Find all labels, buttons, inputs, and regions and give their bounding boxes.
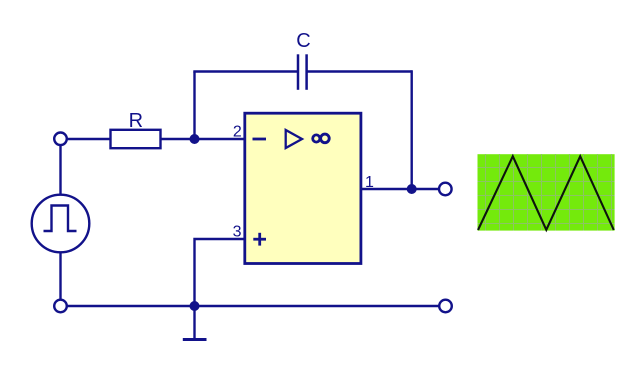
scope triangle waveform [478,156,614,230]
svg-text:C: C [296,30,310,52]
wire feedback top left to capacitor [193,70,298,72]
wire bottom rail [66,305,439,307]
bottom left terminal [54,300,67,313]
wire source down to bottom left terminal [59,252,61,300]
op-amp minus sign [253,138,267,141]
scope display background [478,154,615,230]
op-amp U1 body [245,113,361,263]
source V1 circle [32,195,90,253]
svg-text:2: 2 [233,124,242,141]
input terminal top left [54,133,67,146]
op-amp plus sign [253,238,266,241]
wire non-inverting input pin 3 [195,239,245,306]
wire input terminal to resistor [66,138,111,140]
svg-text:R: R [129,110,143,132]
node A junction dot [190,134,200,144]
wire node A up to feedback [193,72,195,141]
wire resistor to inverting input (through node A) [160,138,244,140]
output terminal [439,183,452,196]
resistor R1 [111,130,161,148]
wire op-amp output to terminal [361,188,439,190]
scope grid [478,154,615,230]
ground [193,306,195,340]
capacitor C1 plates [297,54,300,90]
wire input terminal down to source [59,145,61,195]
bottom right terminal [439,300,452,313]
source V1 pulse symbol [44,206,77,232]
op-amp gain triangle [286,130,302,148]
svg-text:1: 1 [365,174,374,191]
op-amp infinity symbol [313,135,320,142]
svg-text:3: 3 [233,224,242,241]
ground node junction dot [190,301,200,311]
wire capacitor to feedback top right [307,70,412,72]
output node junction dot [407,184,417,194]
wire feedback right down to output node [411,70,413,189]
